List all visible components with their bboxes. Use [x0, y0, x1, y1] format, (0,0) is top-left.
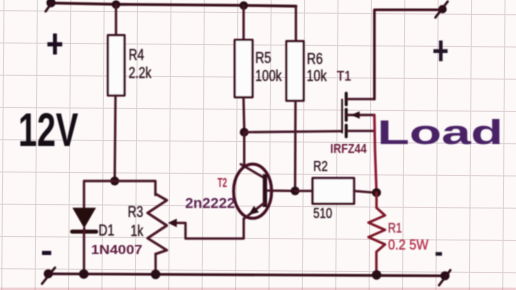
wire T1 source down: [374, 115, 376, 193]
symbol minus left: [42, 251, 51, 255]
svg-text:R2: R2: [313, 158, 327, 175]
wire R5 top lead: [242, 5, 244, 40]
wire T2 collector lead: [241, 132, 264, 178]
wire R3 wiper to T2 emitter: [171, 219, 244, 239]
svg-text:D1: D1: [99, 221, 115, 239]
resistor R1 zigzag: [369, 193, 386, 275]
svg-text:R5: R5: [255, 49, 271, 67]
node R3 ground junction: [151, 270, 161, 280]
svg-text:100k: 100k: [255, 67, 282, 85]
resistor R2: [313, 178, 354, 204]
svg-text:R3: R3: [128, 202, 144, 220]
wire R2 right lead: [354, 191, 372, 193]
wiper arrowhead: [168, 219, 177, 228]
node D1-R3 junction: [110, 177, 119, 186]
svg-text:12V: 12V: [18, 103, 78, 156]
svg-text:1k: 1k: [131, 222, 144, 240]
diode D1: [72, 208, 96, 232]
svg-text:1N4007: 1N4007: [91, 242, 143, 257]
resistor R4: [108, 35, 125, 95]
transistor Q T2 2n2222: [234, 164, 295, 219]
wire gate line to T1: [244, 131, 341, 132]
resistor R6: [286, 41, 303, 100]
node R2-source junction: [372, 188, 381, 197]
terminal + top-right: [435, 2, 447, 18]
wire T1 drain to top terminal: [374, 10, 442, 99]
svg-text:10k: 10k: [307, 68, 328, 86]
wire R4 top lead: [115, 4, 117, 35]
wire D1 bottom lead: [83, 232, 85, 272]
svg-text:T2: T2: [218, 176, 228, 190]
svg-text:Load: Load: [377, 114, 503, 152]
terminal + top-left: [46, 0, 56, 11]
symbol plus left: [47, 34, 62, 55]
node T2 base junction: [291, 187, 300, 196]
wire junction to R3: [115, 181, 156, 195]
svg-text:0.2 5W: 0.2 5W: [388, 235, 429, 252]
svg-text:2n2222: 2n2222: [185, 195, 235, 212]
mosfet T1 IRFZ44: [342, 93, 374, 136]
svg-text:510: 510: [313, 205, 332, 222]
svg-text:T1: T1: [337, 68, 351, 84]
node R4 top junction: [112, 0, 121, 9]
wire R5 bottom lead: [242, 97, 245, 128]
wire R2 left lead: [295, 190, 313, 192]
wire R3 bottom lead: [154, 254, 156, 272]
wire R6 bottom lead: [294, 101, 297, 187]
wire top positive rail: [51, 3, 296, 6]
resistor R3 zigzag: [148, 194, 167, 254]
terminal minus bottom-right: [439, 270, 450, 285]
wire R6 top lead: [295, 6, 297, 41]
node R5 top junction: [239, 1, 248, 10]
svg-text:R4: R4: [129, 46, 145, 64]
wire bottom ground rail: [48, 274, 445, 276]
svg-text:R6: R6: [307, 51, 323, 69]
symbol minus right: [436, 252, 442, 256]
terminal minus bottom-left: [42, 268, 55, 284]
svg-text:IRFZ44: IRFZ44: [330, 141, 367, 156]
svg-text:R1: R1: [388, 220, 402, 236]
node gate junction: [240, 128, 249, 137]
bottom edge artifact: [0, 288, 516, 290]
symbol plus right: [433, 41, 447, 62]
wire R4 bottom lead: [113, 96, 116, 182]
svg-text:2.2k: 2.2k: [129, 64, 152, 82]
resistor R5: [235, 40, 253, 97]
node R1 ground junction: [372, 270, 382, 280]
node D1 ground junction: [79, 269, 89, 279]
wire junction to D1: [84, 181, 115, 209]
